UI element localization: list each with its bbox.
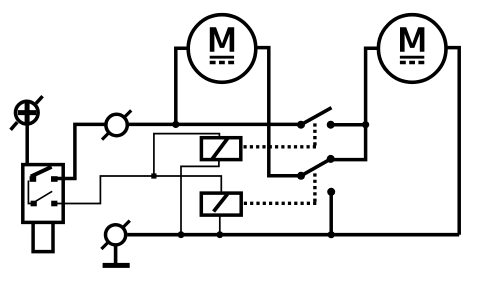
switch contact SW1 pivot dot: [297, 121, 305, 129]
switch SW1 blade (open): [301, 108, 332, 125]
contact top-right: [51, 176, 58, 182]
wire motor M2 left lead: [366, 48, 377, 125]
control wire node D to relay K1 top: [154, 134, 220, 176]
junction node D (square): [151, 173, 156, 178]
switch SW2 lower contact dot: [327, 188, 335, 196]
control wire relay K2 bottom to bottom bus: [219, 216, 221, 235]
pushbutton stem: [33, 224, 53, 252]
wire SW2 lower contact to bottom bus: [329, 192, 333, 235]
pushbutton switch box S1: [23, 165, 63, 223]
closed blade top switch: [31, 167, 52, 177]
switch SW1 contact dot: [327, 121, 335, 129]
switch SW2 upper contact dot: [327, 155, 335, 163]
ground: [103, 263, 130, 268]
bottom bus wire: [127, 233, 459, 237]
wire switch to connector X1: [58, 124, 105, 178]
motor M1: [188, 15, 256, 83]
motor M2: [378, 15, 446, 83]
contact top-left: [30, 176, 37, 182]
top bus wire: [129, 123, 301, 127]
relay coil K1: [201, 138, 240, 160]
wire node B down to SW2 contact: [334, 125, 366, 160]
relay coil K2: [201, 193, 241, 215]
internal link wire: [28, 181, 31, 204]
control wire from switch box to relay K2 top: [57, 176, 221, 204]
switch SW2 pivot dot: [297, 172, 305, 180]
battery positive terminal B+: [11, 96, 43, 130]
wire battery to switch box: [25, 125, 29, 166]
ground stem wire: [114, 245, 118, 263]
control wire relay K1 bottom to bottom bus: [181, 161, 219, 235]
open blade bottom switch: [36, 191, 53, 201]
mechanical link K1 to SW1 (dotted): [244, 145, 317, 148]
mechanical link K2 to SW2 (dotted): [244, 202, 317, 205]
contact bottom-right: [51, 201, 57, 207]
switch SW2 blade (closed): [301, 159, 331, 176]
junction node B: [362, 121, 369, 128]
contact bottom-left: [31, 201, 37, 207]
junction node A (motor M1 left lead): [172, 121, 179, 128]
wire motor M1 left lead: [176, 48, 187, 124]
wire motor M1 right lead to switch pivot 2: [256, 48, 301, 176]
connector X1: [102, 110, 131, 139]
wire motor M2 right lead: [448, 48, 460, 235]
wire SW1 contact to node B: [331, 123, 366, 127]
junction node C on bottom bus: [328, 231, 335, 238]
junction node E on bottom bus: [178, 231, 185, 238]
connector X2: [101, 221, 129, 249]
junction node F on bottom bus: [216, 231, 223, 238]
